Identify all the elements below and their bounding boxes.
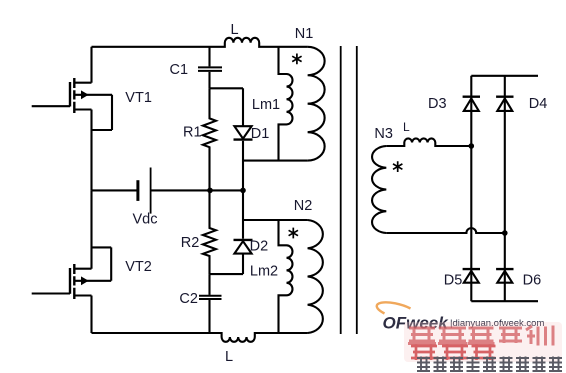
svg-text:N2: N2 [294,198,313,214]
diode D2 (cathode up) [234,190,253,274]
wire: junction corner down to C2 [208,274,210,295]
svg-text:N3: N3 [374,126,393,142]
winding N1 (primary upper) [243,47,325,161]
wire: primary top rail with series inductor plateau [92,38,308,47]
wire: VT2 source to bottom rail [90,296,92,334]
VT1 source connection [74,108,91,110]
VT2 source connection [74,294,91,296]
wire: R2/D2 bottom junction corner [210,273,244,275]
svg-text:D6: D6 [523,273,542,289]
VT2 channel dashes [73,264,75,299]
VT2 gate lead wire [32,292,70,294]
svg-text:Lm2: Lm2 [250,264,278,280]
svg-text:L: L [230,22,238,38]
VT1 body wire and arrow [74,95,112,130]
svg-text:C2: C2 [179,291,198,307]
svg-text:D1: D1 [251,126,270,142]
transistor VT2 [32,247,112,299]
wire: bridge right leg [504,76,506,301]
svg-text:VT2: VT2 [125,259,152,275]
Vdc short plate [136,180,139,201]
C2 plates [199,296,222,299]
watermark: red haze backdrop [404,322,562,362]
wire: N1 bottom return [243,160,308,162]
wire: left rail VT1 source to battery node [90,110,92,191]
VT1 gate bar [69,82,71,107]
svg-text:Vdc: Vdc [133,212,158,228]
svg-text:D4: D4 [529,96,548,112]
resistor R2 [203,190,216,274]
svg-text:C1: C1 [170,62,189,78]
node: N3 top to bridge left leg [469,143,475,149]
wire: N2 top lead from D2 column [243,219,308,221]
Vdc long plate [150,168,152,214]
capacitor C1 [198,47,222,89]
VT2 drain connection [74,268,91,270]
wire: battery right lead to middle nodes [152,189,244,191]
wire: C1 to junction corner [208,72,210,88]
capacitor C2 [199,274,222,333]
VT1 channel dashes [73,78,75,113]
wire: bridge bottom output rail [471,300,538,302]
watermark: red CJK characters row 2 [411,345,496,361]
watermark: gray CJK slogan row [417,357,562,372]
svg-text:L: L [225,349,233,365]
inductor Lm1 (magnetizing, upper) [279,47,293,161]
wire: C2 to bottom rail [208,300,210,333]
node: midpoint junction at R column [207,188,213,194]
wire: secondary top lead with inductor L [386,138,471,146]
N1 polarity dot (asterisk) [292,54,301,65]
svg-text:VT1: VT1 [125,90,152,106]
wire: bridge top output rail [471,75,538,77]
svg-text:D2: D2 [250,239,269,255]
diode D5 (cathode up) [463,269,480,283]
diode D1 (cathode down) [234,126,253,190]
N2 polarity dot (asterisk) [289,228,298,239]
node: midpoint junction at D column [240,188,246,194]
diode D4 (cathode up) [496,97,513,111]
C1 plates [198,67,222,71]
diode D3 (cathode up) [463,97,480,111]
VT1 drain connection [74,47,91,83]
svg-text:R1: R1 [183,125,202,141]
svg-text:L: L [403,120,410,134]
svg-text:R2: R2 [181,235,200,251]
watermark: OFweek orange swoosh [377,302,411,313]
wire: secondary bottom lead with crossover hop [386,228,505,233]
battery Vdc [92,168,244,214]
winding N2 (primary lower) [243,220,323,333]
inductor Lm2 (magnetizing, lower) [279,220,293,333]
VT2 gate bar [69,268,71,294]
wire: top rail to C1 [208,47,210,67]
svg-text:N1: N1 [295,26,314,42]
N3 polarity dot (asterisk) [393,161,402,172]
wire: primary bottom rail with series inductor plateau [92,333,308,342]
VT2 body wire and arrow (loops up to drain side) [74,247,111,280]
diode D6 (cathode up) [496,269,513,283]
wire: battery left lead [92,189,137,191]
wire: left rail battery node to VT2 drain [90,190,92,268]
transformer core [341,46,357,334]
winding N3 (secondary) [372,146,386,233]
resistor R1 [203,88,216,190]
wire: bridge left leg [470,76,472,301]
svg-text:Lm1: Lm1 [252,97,280,113]
node: N3 bottom to bridge right leg [502,230,508,236]
wire: C1 junction corner to D1 [210,88,244,126]
transistor VT1 [32,47,112,130]
VT1 gate lead wire [32,105,70,107]
svg-text:D5: D5 [444,273,463,289]
watermark: red CJK characters row 1 [408,326,553,346]
svg-text:D3: D3 [428,96,447,112]
